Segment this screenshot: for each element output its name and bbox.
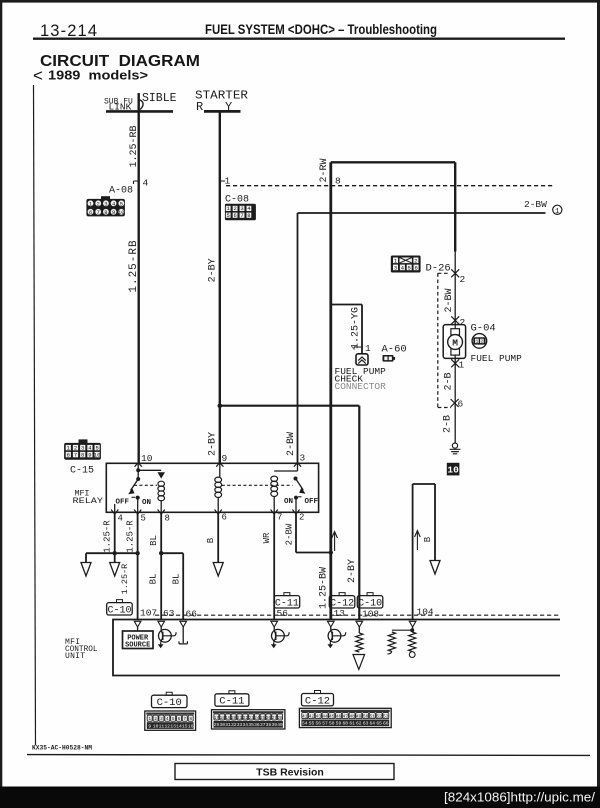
MFI pin entry arrows xyxy=(134,621,416,627)
wire: 2-BW drop to MFI relay pin 3 xyxy=(297,213,299,463)
svg-text:104: 104 xyxy=(417,607,434,618)
svg-text:ON: ON xyxy=(142,499,151,507)
svg-text:49: 49 xyxy=(356,713,362,719)
wire: relay pin 4 1.25-R xyxy=(114,512,116,562)
svg-text:1: 1 xyxy=(225,176,231,187)
wire: relay pin 7 WR down to MFI pin 56 xyxy=(273,512,275,619)
svg-text:FUEL SYSTEM <DOHC> – Troublesh: FUEL SYSTEM <DOHC> – Troubleshooting xyxy=(205,22,437,37)
svg-text:2: 2 xyxy=(97,200,100,207)
svg-text:44: 44 xyxy=(322,713,328,719)
svg-text:1.25-RB: 1.25-RB xyxy=(128,239,140,292)
svg-text:58: 58 xyxy=(329,721,335,727)
svg-text:45: 45 xyxy=(329,713,335,719)
wire: junction bar to left offpage arrow xyxy=(86,553,138,562)
svg-text:1: 1 xyxy=(459,360,465,371)
svg-text:63: 63 xyxy=(163,608,175,619)
svg-text:55: 55 xyxy=(309,721,315,727)
connector C-12 label box (pin 13) xyxy=(329,593,355,610)
svg-text:A-60: A-60 xyxy=(382,344,407,356)
svg-text:KX35-AC-H0528-NM: KX35-AC-H0528-NM xyxy=(32,745,92,752)
svg-text:8: 8 xyxy=(81,452,84,459)
wire: relay pin 8 BL down to MFI pin 63 xyxy=(160,512,162,619)
svg-text:2: 2 xyxy=(154,716,157,722)
resistor at pin 108 xyxy=(356,627,363,652)
svg-text:28: 28 xyxy=(277,715,283,721)
ground reference box 10 xyxy=(447,463,460,476)
offpage arrow pin6 xyxy=(213,563,223,577)
svg-text:1989 models>: 1989 models> xyxy=(48,69,148,83)
pin 1 tick at check connector xyxy=(354,347,362,350)
connector A-60 icon xyxy=(383,355,396,362)
svg-text:51: 51 xyxy=(370,713,376,719)
ground symbol xyxy=(450,443,461,454)
svg-text:B: B xyxy=(423,536,433,542)
svg-text:M: M xyxy=(452,338,458,349)
svg-text:10: 10 xyxy=(118,209,125,216)
fuel pump motor G-04 xyxy=(443,325,465,359)
svg-text:TSB Revision: TSB Revision xyxy=(256,767,324,779)
svg-text:1: 1 xyxy=(476,340,479,345)
fuel pump check connector symbol xyxy=(356,354,368,365)
svg-text:10: 10 xyxy=(94,452,101,459)
MFI pin numbers xyxy=(140,607,434,620)
power source block xyxy=(123,627,154,650)
svg-text:10: 10 xyxy=(447,465,459,476)
svg-text:5: 5 xyxy=(120,200,123,207)
svg-text:3: 3 xyxy=(104,200,107,207)
MFI relay box xyxy=(106,463,318,512)
svg-text:42: 42 xyxy=(309,713,315,719)
relay bottom pin numbers xyxy=(118,513,305,524)
resistor under pin 104 xyxy=(409,632,416,657)
svg-text:RELAY: RELAY xyxy=(73,496,104,506)
svg-text:1.25-R: 1.25-R xyxy=(125,520,135,553)
svg-text:5: 5 xyxy=(95,445,98,452)
page right edge xyxy=(597,0,600,787)
svg-text:ON: ON xyxy=(284,498,293,506)
svg-text:B: B xyxy=(206,537,216,543)
svg-text:9: 9 xyxy=(148,723,151,729)
svg-text:59: 59 xyxy=(336,721,342,727)
svg-text:C-11: C-11 xyxy=(219,696,244,708)
output transistor at pin 56 xyxy=(271,627,289,648)
svg-text:C-10: C-10 xyxy=(107,605,131,616)
svg-text:4: 4 xyxy=(118,514,123,524)
bottom connector C-11 label xyxy=(215,691,249,708)
svg-text:2-BW: 2-BW xyxy=(286,432,297,456)
wire: left main 1.25-RB from fusible link down to MFI relay pin 10 xyxy=(137,93,139,463)
dashed connector row through C-08 xyxy=(226,185,553,187)
svg-text:43: 43 xyxy=(316,713,322,719)
offpage arrow left xyxy=(81,563,91,577)
svg-text:63: 63 xyxy=(363,721,369,727)
wire: fuel pump feed drop (thick part) xyxy=(454,162,456,251)
svg-text:OFF: OFF xyxy=(305,498,319,506)
svg-text:1.25-BW: 1.25-BW xyxy=(318,567,329,609)
svg-text:54: 54 xyxy=(302,721,308,727)
svg-text:1: 1 xyxy=(365,343,371,354)
relay coil left (pin 8) xyxy=(158,481,165,512)
footer rule xyxy=(27,754,590,757)
svg-text:BL: BL xyxy=(149,574,159,585)
bottom connector C-11 pin grid xyxy=(212,710,285,729)
svg-text:7: 7 xyxy=(183,716,186,722)
svg-text:1.25-R: 1.25-R xyxy=(120,564,130,595)
svg-text:3: 3 xyxy=(394,264,397,271)
svg-text:6: 6 xyxy=(233,212,236,219)
svg-text:5: 5 xyxy=(227,212,230,219)
svg-text:66: 66 xyxy=(383,721,389,727)
svg-text:56: 56 xyxy=(277,608,289,619)
svg-text:60: 60 xyxy=(343,721,349,727)
pin 104 internal node xyxy=(392,627,414,632)
TSB revision box xyxy=(175,764,394,780)
pin 4 tick on left wire xyxy=(134,181,139,184)
svg-text:C-12: C-12 xyxy=(305,695,330,707)
offpage arrow pin4 xyxy=(110,563,120,577)
relay pin entry arrows top xyxy=(135,463,302,467)
svg-text:46: 46 xyxy=(336,713,342,719)
svg-text:2-BW: 2-BW xyxy=(524,199,547,210)
svg-text:OFF: OFF xyxy=(116,499,130,507)
svg-text:107: 107 xyxy=(140,608,157,619)
svg-text:3: 3 xyxy=(300,453,306,464)
svg-text:8: 8 xyxy=(104,209,107,216)
svg-text:108: 108 xyxy=(362,609,379,620)
svg-text:5: 5 xyxy=(141,514,146,524)
svg-text:C-15: C-15 xyxy=(70,466,94,477)
svg-text:[824x1086]http://upic.me/: [824x1086]http://upic.me/ xyxy=(444,791,596,805)
svg-text:2-BW: 2-BW xyxy=(444,288,455,312)
svg-text:2: 2 xyxy=(414,257,417,264)
svg-text:2: 2 xyxy=(481,340,484,345)
wire: top jumper from 2-RW to fuel pump feed xyxy=(331,161,455,163)
internal arrow below pin 108 resistor xyxy=(353,655,365,670)
bottom connector C-10 label xyxy=(152,692,188,709)
wire: relay pin 5 1.25-R down to MFI pin 107 xyxy=(137,512,139,619)
svg-text:8: 8 xyxy=(247,212,250,219)
junction dot starter/2-BY branch xyxy=(218,403,223,408)
connector crossing fuel pump pin 2 xyxy=(451,316,459,324)
svg-text:4: 4 xyxy=(166,716,169,722)
svg-text:16: 16 xyxy=(188,723,194,729)
relay dashed actuator link left xyxy=(134,484,157,486)
svg-text:C-10: C-10 xyxy=(157,697,182,709)
page top edge xyxy=(0,0,600,3)
internal ground at pin 66 xyxy=(179,627,187,644)
svg-text:4: 4 xyxy=(143,178,149,189)
svg-text:3: 3 xyxy=(81,445,84,452)
sub fusible link bus bar xyxy=(106,110,173,113)
wire: starter 2-BY down to MFI relay pin 9 xyxy=(219,112,221,463)
svg-text:5: 5 xyxy=(172,716,175,722)
svg-text:64: 64 xyxy=(370,721,376,727)
svg-text:1: 1 xyxy=(555,208,560,216)
header rule xyxy=(33,38,565,40)
wire: relay pin 2 2-BW joining main drop xyxy=(296,512,331,552)
connector crossing D-26 pin 2 xyxy=(451,269,459,277)
connector C-10 label box (pin 108) xyxy=(357,593,383,610)
connector C-15 block xyxy=(64,439,101,459)
svg-text:6: 6 xyxy=(458,399,464,410)
page left border line xyxy=(34,85,36,745)
relay internals right switch xyxy=(284,477,319,513)
svg-text:2-B: 2-B xyxy=(443,372,454,390)
fusible link squiggle xyxy=(139,100,143,110)
starter relay label xyxy=(195,89,248,115)
watermark bar xyxy=(0,787,600,808)
bottom connector C-12 pin grid xyxy=(299,708,391,727)
svg-text:2-BW: 2-BW xyxy=(284,523,294,545)
svg-text:6: 6 xyxy=(414,264,417,271)
svg-text:A-08: A-08 xyxy=(109,186,133,197)
svg-text:7: 7 xyxy=(97,209,100,216)
connector D-26 block xyxy=(391,256,421,273)
svg-text:WR: WR xyxy=(262,532,272,543)
wire: fuel pump feed drop (thin part) xyxy=(454,252,456,444)
wire: 2-BY branch from starter run to MFI pin 108 xyxy=(220,406,359,620)
svg-text:8: 8 xyxy=(165,514,170,524)
svg-text:50: 50 xyxy=(363,713,369,719)
pin 1 tick on starter wire xyxy=(221,181,226,184)
svg-text:2: 2 xyxy=(299,513,304,523)
svg-text:2-BY: 2-BY xyxy=(347,559,358,583)
svg-text:9: 9 xyxy=(222,453,228,464)
flow arrow on pin104 riser xyxy=(415,531,421,551)
connector crossing fuel pump pin 1 xyxy=(451,359,459,367)
svg-text:7: 7 xyxy=(74,452,77,459)
svg-text:1.25-R: 1.25-R xyxy=(103,520,113,553)
wire: BL branch to MFI pin 66 xyxy=(161,553,183,619)
svg-text:C-11: C-11 xyxy=(275,598,299,609)
wire: B loop from MFI pin 104 up and to offpage arrow xyxy=(413,484,435,620)
svg-text:5: 5 xyxy=(408,264,411,271)
sub fusible link label xyxy=(104,92,177,113)
flow arrow on main drop xyxy=(332,532,338,552)
MFI relay caption xyxy=(73,489,104,507)
svg-text:56: 56 xyxy=(316,721,322,727)
svg-text:SOURCE: SOURCE xyxy=(125,642,150,650)
svg-text:7: 7 xyxy=(277,513,282,523)
bottom connector C-10 pin grid xyxy=(145,711,196,730)
svg-text:65: 65 xyxy=(376,721,382,727)
connector C-10 label box (pin 107) xyxy=(107,600,133,617)
relay dashed actuator link right xyxy=(222,484,293,486)
svg-text:1: 1 xyxy=(148,716,151,722)
svg-text:13: 13 xyxy=(170,723,176,729)
svg-text:CONNECTOR: CONNECTOR xyxy=(335,381,387,392)
wire: 2-BW horizontal to circled junction 1 xyxy=(298,212,546,214)
svg-text:R: R xyxy=(196,100,203,114)
svg-text:10: 10 xyxy=(141,453,153,464)
svg-text:6: 6 xyxy=(89,209,92,216)
connector A-08 block xyxy=(86,196,125,216)
dashed connector row above MFI unit xyxy=(155,614,560,616)
svg-text:G-04: G-04 xyxy=(471,323,496,335)
output transistor at pin 13 xyxy=(328,627,346,648)
svg-text:2: 2 xyxy=(460,274,466,285)
svg-text:2-BY: 2-BY xyxy=(207,432,218,456)
relay internals left: pin10 node and switch xyxy=(115,463,162,512)
svg-text:3: 3 xyxy=(160,716,163,722)
bottom connector C-12 label xyxy=(302,691,334,708)
relay diode xyxy=(157,472,165,478)
output transistor at pin 63 xyxy=(158,627,176,648)
svg-text:62: 62 xyxy=(356,721,362,727)
svg-text:2-BY: 2-BY xyxy=(208,258,219,282)
svg-text:C-10: C-10 xyxy=(358,598,382,609)
svg-text:BL: BL xyxy=(172,574,182,585)
svg-text:13-214: 13-214 xyxy=(40,22,97,40)
svg-text:CIRCUIT DIAGRAM: CIRCUIT DIAGRAM xyxy=(40,53,200,70)
circled junction 1 xyxy=(553,205,562,216)
svg-text:2-B: 2-B xyxy=(443,415,454,433)
svg-text:9: 9 xyxy=(88,452,91,459)
connector crossing D-26 pin 6 xyxy=(451,399,459,407)
svg-text:6: 6 xyxy=(222,513,227,523)
svg-text:15: 15 xyxy=(182,723,188,729)
svg-text:7: 7 xyxy=(240,212,243,219)
svg-text:61: 61 xyxy=(349,721,355,727)
resistor left of pin 104 xyxy=(387,632,395,654)
relay pin exit arrows bottom xyxy=(111,510,300,515)
svg-text:47: 47 xyxy=(343,713,349,719)
page left edge xyxy=(0,0,2,787)
svg-text:BL: BL xyxy=(149,535,159,546)
starter relay bus bar xyxy=(204,110,241,113)
wire: 2-RW main drop down to MFI pin 13 xyxy=(329,162,332,619)
svg-text:1.25-YG: 1.25-YG xyxy=(350,307,361,349)
svg-text:6: 6 xyxy=(178,716,181,722)
svg-text:13: 13 xyxy=(334,608,346,619)
svg-text:8: 8 xyxy=(335,176,341,187)
connector C-11 label box (pin 56) xyxy=(274,593,300,610)
svg-text:11: 11 xyxy=(159,723,165,729)
MFI control unit caption xyxy=(65,638,98,661)
connector C-08 block xyxy=(225,204,256,221)
svg-text:52: 52 xyxy=(376,713,382,719)
svg-text:<: < xyxy=(33,66,43,85)
fuel pump check connector caption xyxy=(335,366,387,392)
svg-text:1.25-RB: 1.25-RB xyxy=(129,125,140,167)
relay coil middle (pin 9 to pin 6) xyxy=(215,463,222,512)
svg-text:6: 6 xyxy=(67,452,70,459)
svg-text:53: 53 xyxy=(383,713,389,719)
offpage arrow B loop xyxy=(430,561,440,575)
svg-text:40: 40 xyxy=(277,722,283,728)
svg-text:2-RW: 2-RW xyxy=(319,158,330,182)
svg-text:57: 57 xyxy=(322,721,328,727)
svg-text:SIBLE: SIBLE xyxy=(142,92,177,105)
svg-text:41: 41 xyxy=(302,713,308,719)
svg-text:2: 2 xyxy=(74,445,77,452)
dashed in-tank boundary xyxy=(438,273,451,407)
svg-text:66: 66 xyxy=(186,609,198,620)
svg-text:9: 9 xyxy=(112,209,115,216)
svg-text:48: 48 xyxy=(349,713,355,719)
svg-text:C-12: C-12 xyxy=(330,598,354,609)
svg-text:FUEL PUMP: FUEL PUMP xyxy=(471,353,523,364)
svg-text:8: 8 xyxy=(189,716,192,722)
connector G-04 round connector xyxy=(472,334,487,349)
svg-text:UNIT: UNIT xyxy=(65,652,85,661)
MFI control unit box (open right) xyxy=(113,620,560,676)
relay coil right (pin 7) xyxy=(271,463,298,512)
wire: relay pin 6 B to offpage xyxy=(217,512,219,562)
wire: branch to fuel pump check connector 1.25-YG xyxy=(331,305,362,354)
